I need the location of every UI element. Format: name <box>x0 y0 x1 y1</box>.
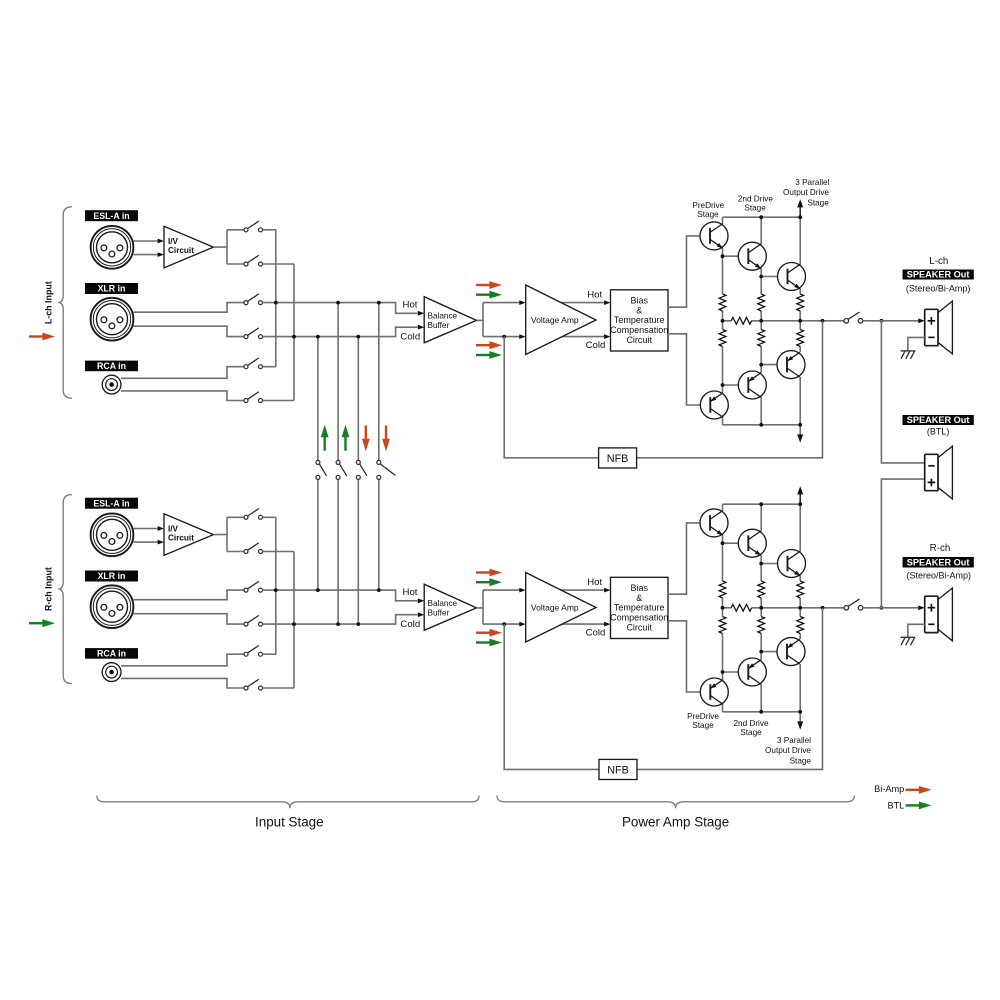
svg-text:RCA in: RCA in <box>97 649 126 659</box>
transistor R-ch output NPN Q3 <box>778 550 806 578</box>
wire: L-ch RCA switch outputs <box>263 367 295 401</box>
svg-text:Buffer: Buffer <box>428 609 450 618</box>
svg-text:2nd Drive: 2nd Drive <box>733 719 768 728</box>
wire: R-ch hot bus vertical <box>275 517 277 654</box>
wire: L-ch 2nd drive column <box>760 217 762 425</box>
svg-text:3 Parallel: 3 Parallel <box>795 178 829 187</box>
R-ch Bias &amp; Temperature Compensation Circuit U1 <box>611 577 669 638</box>
op-amp L-ch Balance Buffer <box>424 297 476 343</box>
wire: R-ch RCA switch outputs <box>263 654 295 688</box>
node L-ch rail and column junctions <box>759 215 763 219</box>
svg-text:Stage: Stage <box>740 728 762 737</box>
node cross line B taps <box>336 301 340 305</box>
Bi-Amp arrow down cross line D <box>382 425 390 451</box>
L-ch NFB box <box>599 448 637 468</box>
wire: L-ch ESL-A to I/V circuit <box>134 241 158 255</box>
wire: R-ch output mid rail <box>723 607 845 609</box>
switch L-ch RCA cold select <box>244 392 263 403</box>
svg-text:3 Parallel: 3 Parallel <box>777 736 811 745</box>
transistor R-ch predrive PNP Q6 <box>700 678 728 706</box>
wire: R-ch cold bus vertical <box>293 552 295 689</box>
wire: L-ch cold bus vertical <box>293 264 295 401</box>
switch R-ch RCA hot select <box>244 646 263 657</box>
R-ch input chain <box>85 498 668 690</box>
resistor R-ch R5 lower 2nd drive <box>758 617 765 634</box>
wire: L-ch hot bus vertical <box>275 230 277 367</box>
wire: R-ch positive supply rail <box>723 503 801 505</box>
wire: L-ch interstage base connections <box>723 256 778 385</box>
wire: R-ch bias output to predrive bases <box>668 523 700 692</box>
node L-ch hot bus junction <box>274 301 278 305</box>
BTL arrow L-ch upper <box>476 291 502 299</box>
wire: L-ch positive supply rail <box>723 216 801 218</box>
svg-text:2nd Drive: 2nd Drive <box>738 195 773 204</box>
svg-text:Compensation: Compensation <box>610 613 668 623</box>
node R-ch rail and column junctions <box>759 502 763 506</box>
svg-text:Circuit: Circuit <box>626 622 652 632</box>
wire: L-ch I/V output to selector switches <box>213 230 244 264</box>
wire: R-ch NFB loop <box>504 608 822 770</box>
switch cross line D <box>377 460 396 479</box>
svg-text:Circuit: Circuit <box>168 246 194 255</box>
Bi-Amp arrow R-ch upper <box>476 569 502 577</box>
switch R-ch XLR hot select <box>244 581 263 592</box>
op-amp R-ch Voltage Amp <box>526 573 596 643</box>
svg-text:Output Drive: Output Drive <box>783 188 829 197</box>
svg-text:SPEAKER Out: SPEAKER Out <box>907 270 970 280</box>
speaker BTL SPEAKER <box>925 446 953 499</box>
L-ch XLR connector J2 <box>91 298 134 341</box>
switch R-ch speaker relay <box>844 599 863 610</box>
svg-text:Cold: Cold <box>586 628 606 639</box>
wire: cross line C (L cold to R cold) <box>357 337 359 624</box>
wire: R-ch interstage base connections <box>723 543 778 672</box>
wire: R-ch cold line <box>263 615 418 624</box>
svg-text:&: & <box>636 305 642 315</box>
transistor L-ch 2nd drive NPN Q2 <box>738 242 766 270</box>
svg-text:R-ch Input: R-ch Input <box>44 567 54 611</box>
svg-text:Bi-Amp: Bi-Amp <box>874 784 904 794</box>
R-ch power stage <box>668 486 925 729</box>
svg-text:Circuit: Circuit <box>168 533 194 542</box>
L-ch XLR in label <box>85 283 138 294</box>
wire: R-ch 2nd drive column <box>760 504 762 712</box>
wire: R-ch XLR to switches <box>134 590 245 624</box>
wire: R-ch balance buffer outputs <box>477 590 520 624</box>
resistor R-ch R1 emitter upper predrive <box>719 581 726 598</box>
resistor L-ch R3 upper output <box>797 294 804 311</box>
svg-text:Stage: Stage <box>692 721 714 730</box>
BTL arrow L-ch lower <box>476 351 502 359</box>
switch R-ch ESL hot select <box>244 509 263 520</box>
Bi-Amp arrow L-ch lower <box>476 341 502 349</box>
Power Amp Stage brace <box>497 796 854 809</box>
wire: L-ch output drive column <box>799 217 801 435</box>
wire: R-ch ESL-A to I/V circuit <box>134 529 158 543</box>
R-ch ESL-A in label <box>85 498 138 509</box>
svg-text:PreDrive: PreDrive <box>687 712 719 721</box>
L-ch RCA in label <box>85 361 138 372</box>
BTL arrow R input <box>29 619 55 627</box>
node R-ch NFB tap on cold line <box>502 622 506 626</box>
resistor L-ch R7 horizontal mid rail <box>731 317 751 324</box>
svg-text:BTL: BTL <box>887 800 904 810</box>
svg-text:Hot: Hot <box>403 299 418 310</box>
resistor R-ch R6 lower output <box>797 617 804 634</box>
svg-text:L-ch Input: L-ch Input <box>44 281 54 324</box>
Bi-Amp arrow L input <box>29 333 55 341</box>
svg-text:Hot: Hot <box>403 587 418 598</box>
switch cross line B <box>336 460 347 479</box>
wire: R speaker minus to ground <box>908 624 925 637</box>
L-ch input chain <box>85 210 668 402</box>
svg-text:Circuit: Circuit <box>626 335 652 345</box>
R-ch XLR connector J2 <box>91 585 134 628</box>
wire: L-ch output mid rail <box>723 320 845 322</box>
BTL arrow up cross line A <box>321 425 329 451</box>
Bi-Amp arrow down cross line C <box>362 425 370 451</box>
speaker R-ch SPEAKER <box>925 588 953 641</box>
op-amp L-ch I/V Circuit <box>164 226 213 268</box>
transistor R-ch 2nd drive NPN Q2 <box>738 529 766 557</box>
wire: R output to BTL speaker plus <box>881 479 924 608</box>
L-ch ESL-A in label <box>85 210 138 221</box>
svg-text:Cold: Cold <box>586 340 606 351</box>
svg-text:Hot: Hot <box>587 290 602 301</box>
BTL arrow R-ch lower <box>476 639 502 647</box>
svg-text:Voltage Amp: Voltage Amp <box>531 603 579 613</box>
svg-text:(Stereo/Bi-Amp): (Stereo/Bi-Amp) <box>907 570 972 580</box>
svg-text:ESL-A in: ESL-A in <box>93 211 129 221</box>
node L-ch NFB tap on cold line <box>502 335 506 339</box>
resistor R-ch R4 lower predrive <box>719 617 726 634</box>
svg-text:Stage: Stage <box>790 756 812 765</box>
wire: R-ch output drive column <box>799 504 801 722</box>
svg-text:Bias: Bias <box>630 583 648 593</box>
wire: R-ch I/V output to selector switches <box>213 517 244 551</box>
switch L-ch XLR hot select <box>244 294 263 305</box>
svg-text:SPEAKER Out: SPEAKER Out <box>907 557 970 567</box>
svg-text:I/V: I/V <box>168 524 179 533</box>
wire: L-ch output to speaker <box>863 320 919 322</box>
wire: cross line D (L hot to R hot) <box>378 303 380 590</box>
resistor R-ch R3 upper output <box>797 581 804 598</box>
wire: L-ch bias output to predrive bases <box>668 236 700 405</box>
op-amp R-ch Balance Buffer <box>424 584 476 630</box>
wire: R-ch RCA to switches <box>121 654 244 688</box>
BTL arrow R-ch upper <box>476 578 502 586</box>
wire: L-ch hot line <box>263 303 418 314</box>
switch L-ch speaker relay <box>844 312 863 323</box>
svg-text:Balance: Balance <box>428 312 458 321</box>
wire: L output to BTL speaker minus <box>881 321 924 463</box>
node R-ch cold bus junction <box>292 622 296 626</box>
svg-text:ESL-A in: ESL-A in <box>93 498 129 508</box>
wire: cross line A (L cold to R hot) <box>317 337 319 590</box>
svg-text:L-ch: L-ch <box>929 256 948 267</box>
wire: R-ch predrive column <box>722 504 724 712</box>
transistor L-ch 2nd drive PNP Q5 <box>738 371 766 399</box>
wire: R-ch output column top with up arrow <box>799 493 801 505</box>
svg-text:Compensation: Compensation <box>610 325 668 335</box>
transistor L-ch predrive NPN Q1 <box>700 222 728 250</box>
switch cross line C <box>356 460 367 479</box>
node L-ch cold bus junction <box>292 335 296 339</box>
resistor L-ch R5 lower 2nd drive <box>758 330 765 347</box>
R-ch Input brace <box>58 495 72 684</box>
svg-text:Stage: Stage <box>697 210 719 219</box>
Bi-Amp arrow L-ch upper <box>476 281 502 289</box>
svg-text:NFB: NFB <box>607 453 629 465</box>
resistor L-ch R2 upper 2nd drive <box>758 294 765 311</box>
svg-text:Temperature: Temperature <box>614 315 665 325</box>
label BTL speaker out <box>903 415 974 425</box>
wire: L-ch cold line <box>263 327 418 336</box>
svg-text:(Stereo/Bi-Amp): (Stereo/Bi-Amp) <box>906 283 971 293</box>
resistor L-ch R1 emitter upper predrive <box>719 294 726 311</box>
transistor R-ch predrive NPN Q1 <box>700 509 728 537</box>
svg-text:Cold: Cold <box>400 619 420 630</box>
svg-text:Balance: Balance <box>428 599 458 608</box>
resistor R-ch R2 upper 2nd drive <box>758 581 765 598</box>
R-ch RCA in label <box>85 648 138 659</box>
speaker L-ch SPEAKER <box>925 301 953 354</box>
svg-text:Cold: Cold <box>400 331 420 342</box>
svg-text:Temperature: Temperature <box>614 603 665 613</box>
node cross line A taps <box>316 335 320 339</box>
svg-text:R-ch: R-ch <box>930 543 951 554</box>
wire: L-ch output column top with up arrow <box>799 206 801 218</box>
Input Stage brace <box>97 796 479 809</box>
svg-text:Voltage Amp: Voltage Amp <box>531 315 579 325</box>
svg-text:Input Stage: Input Stage <box>255 815 324 830</box>
L-ch power stage <box>668 199 925 442</box>
Bi-Amp arrow R-ch lower <box>476 629 502 637</box>
svg-text:Stage: Stage <box>744 204 766 213</box>
switch cross line A <box>316 460 327 479</box>
wire: L-ch XLR to switches <box>134 303 245 337</box>
svg-text:NFB: NFB <box>607 764 629 776</box>
switch R-ch XLR cold select <box>244 615 263 626</box>
wire: L-ch ESL switch outputs to buses <box>263 230 295 264</box>
wire: R-ch hot line <box>263 590 418 601</box>
svg-text:RCA in: RCA in <box>97 361 126 371</box>
svg-text:XLR in: XLR in <box>98 284 126 294</box>
R-ch ESL-A XLR connector J1 <box>91 513 134 556</box>
op-amp R-ch I/V Circuit <box>164 514 213 556</box>
svg-text:XLR in: XLR in <box>98 571 126 581</box>
switch R-ch ESL cold select <box>244 543 263 554</box>
svg-text:I/V: I/V <box>168 237 179 246</box>
svg-text:Power Amp Stage: Power Amp Stage <box>622 815 729 830</box>
node cross line D taps <box>377 301 381 305</box>
BTL arrow up cross line B <box>342 425 350 451</box>
svg-text:SPEAKER Out: SPEAKER Out <box>907 415 970 425</box>
L-ch RCA connector J3 <box>102 375 121 394</box>
node cross line C taps <box>356 335 360 339</box>
transistor R-ch 2nd drive PNP Q5 <box>738 658 766 686</box>
wire: R-ch ESL switch outputs to buses <box>263 517 295 551</box>
switch L-ch ESL hot select <box>244 221 263 232</box>
svg-text:Buffer: Buffer <box>428 321 450 330</box>
ground L speaker <box>901 351 916 359</box>
svg-text:(BTL): (BTL) <box>927 427 950 437</box>
wire: L-ch RCA to switches <box>121 367 244 401</box>
R-ch XLR in label <box>85 571 138 582</box>
R-ch NFB box <box>599 759 637 779</box>
svg-text:Hot: Hot <box>587 577 602 588</box>
L-ch Input brace <box>58 207 72 398</box>
switch R-ch RCA cold select <box>244 679 263 690</box>
resistor R-ch R7 horizontal mid rail <box>731 604 751 611</box>
ground R speaker <box>901 637 916 645</box>
node R-ch hot bus junction <box>274 588 278 592</box>
transistor R-ch output PNP Q4 <box>777 638 805 666</box>
switch L-ch RCA hot select <box>244 358 263 369</box>
transistor L-ch output NPN Q3 <box>778 263 806 291</box>
L-ch ESL-A XLR connector J1 <box>91 226 134 269</box>
wire: cross line B (L hot to R cold) <box>337 303 339 624</box>
wire: L-ch predrive column <box>722 217 724 425</box>
wire: L-ch voltage amp outputs <box>526 303 604 337</box>
wire: L-ch balance buffer outputs <box>477 303 520 337</box>
switch L-ch XLR cold select <box>244 328 263 339</box>
wire: R-ch voltage amp outputs <box>526 590 604 624</box>
transistor L-ch output PNP Q4 <box>777 351 805 379</box>
resistor L-ch R4 lower predrive <box>719 330 726 347</box>
svg-text:Output Drive: Output Drive <box>765 746 811 755</box>
resistor L-ch R6 lower output <box>797 330 804 347</box>
wire: R-ch negative rail with down arrow <box>723 711 801 713</box>
svg-text:Bias: Bias <box>630 296 648 306</box>
wire: L-ch NFB loop <box>504 321 822 458</box>
wire: L speaker minus to ground <box>908 337 925 351</box>
wire: R-ch output to speaker <box>863 607 919 609</box>
op-amp L-ch Voltage Amp <box>526 285 596 355</box>
svg-text:&: & <box>636 593 642 603</box>
transistor L-ch predrive PNP Q6 <box>700 391 728 419</box>
svg-text:Stage: Stage <box>807 199 829 208</box>
L-ch Bias &amp; Temperature Compensation Circuit U1 <box>611 290 669 351</box>
switch L-ch ESL cold select <box>244 255 263 266</box>
wire: L-ch negative rail with down arrow <box>723 424 801 426</box>
R-ch RCA connector J3 <box>102 663 121 682</box>
